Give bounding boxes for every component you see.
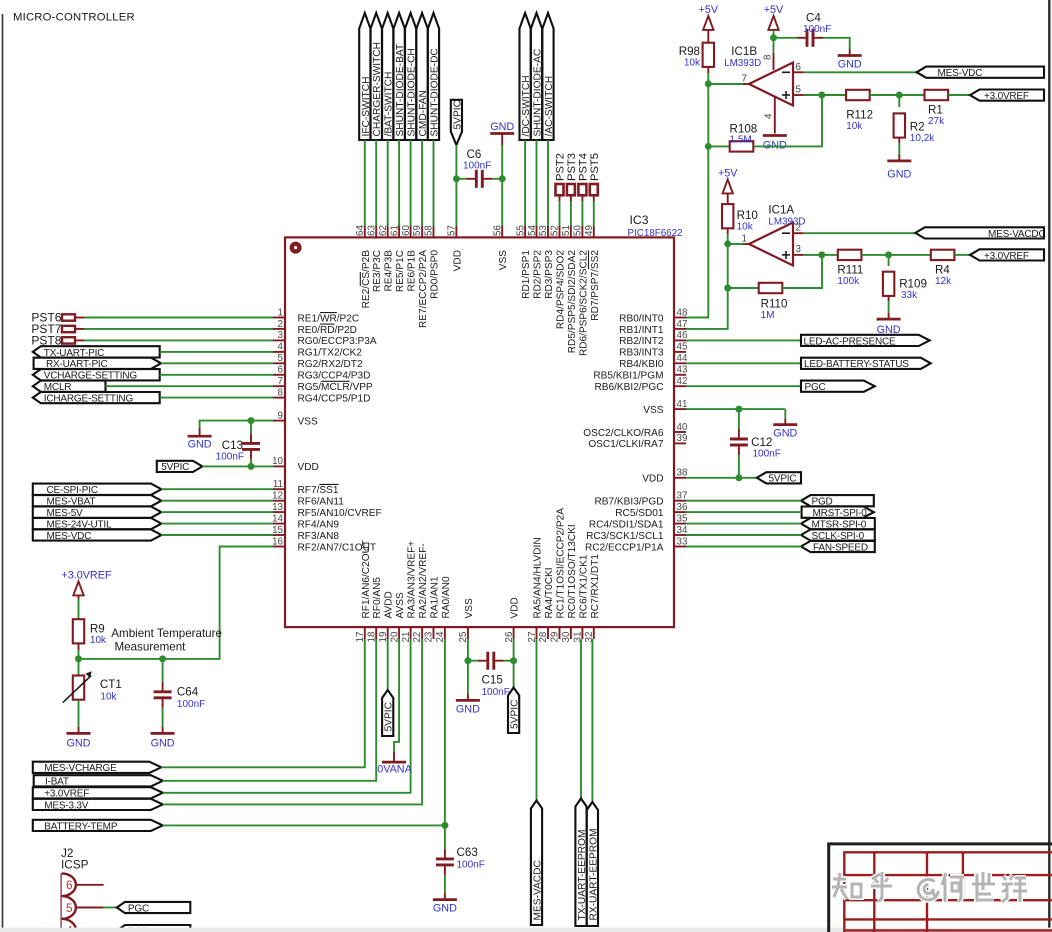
svg-text:RB5/KBI1/PGM: RB5/KBI1/PGM xyxy=(593,371,663,382)
svg-text:47: 47 xyxy=(677,319,688,330)
svg-text:RD5/PSP5/SDI2/SDA2: RD5/PSP5/SDI2/SDA2 xyxy=(567,250,578,354)
svg-text:LM393D: LM393D xyxy=(724,58,761,69)
IC3 pin 32 RC7/RX1/DT1 xyxy=(584,554,601,643)
resistor R2 xyxy=(894,113,936,144)
net flag MRST-SPI-0 xyxy=(802,507,874,520)
svg-text:10k: 10k xyxy=(90,635,107,646)
IC3 pin 26 VDD xyxy=(504,597,521,642)
IC3 pin 17 RF1/AN6/C2OUT xyxy=(355,540,372,643)
svg-text:C4: C4 xyxy=(806,12,821,25)
wire J2 pin4 to PGD xyxy=(104,929,117,931)
junction xyxy=(159,655,166,662)
IC3 pin 12 RF6/AN11 xyxy=(272,491,344,508)
wire pin 20 AVSS to 0VANA xyxy=(394,639,399,752)
svg-text:+5V: +5V xyxy=(718,168,738,180)
svg-text:FAN-SPEED: FAN-SPEED xyxy=(813,542,868,553)
net flag MES-VDC xyxy=(33,529,162,542)
wire pin 27 to MES-VACDC xyxy=(536,639,538,801)
svg-text:BATTERY-TEMP: BATTERY-TEMP xyxy=(44,821,118,832)
wire pin57 node to C6 xyxy=(456,178,466,180)
capacitor C15 xyxy=(478,652,504,670)
svg-text:RC6/TX1/CK1: RC6/TX1/CK1 xyxy=(578,554,589,618)
wire IC1A output xyxy=(728,243,743,245)
svg-text:RC3/SCK1/SCL1: RC3/SCK1/SCL1 xyxy=(586,531,664,542)
ground below C63 xyxy=(433,893,457,900)
wire pin 32 to RX-UART-EEPROM xyxy=(591,639,593,802)
svg-text:RD4/PSP4/SDO2: RD4/PSP4/SDO2 xyxy=(556,250,567,329)
junction xyxy=(724,285,731,292)
svg-text:RB1/INT1: RB1/INT1 xyxy=(619,325,664,336)
wire MES-5V to pin 13 xyxy=(161,511,273,513)
svg-text:R110: R110 xyxy=(761,298,788,311)
junction xyxy=(510,657,517,664)
wire node to R110 xyxy=(728,287,759,289)
overline SS2 on pin 49 label xyxy=(588,251,590,270)
wire MCLR to pin 7 xyxy=(106,385,274,387)
svg-text:RF5/AN10/CVREF: RF5/AN10/CVREF xyxy=(298,508,382,519)
svg-text:11: 11 xyxy=(273,479,283,490)
wire I-BAT to pin 18 xyxy=(163,639,376,781)
svg-text:5VPIC: 5VPIC xyxy=(161,462,189,473)
wire +5V to IC1B pin 8 xyxy=(773,30,775,53)
svg-text:RA0/AN0: RA0/AN0 xyxy=(441,576,452,618)
wire J2 pin5 to PGC xyxy=(104,907,117,909)
ground at pin 41 xyxy=(773,418,797,424)
svg-text:GND: GND xyxy=(838,59,862,71)
net flag MCLR xyxy=(33,381,106,394)
svg-text:30: 30 xyxy=(561,631,572,642)
net flag /DC-SWITCH xyxy=(520,13,533,140)
net flag PGC xyxy=(801,381,875,394)
op-amp ic body: IC3 PIC18F6622 outline xyxy=(285,237,674,627)
net flag RX-UART-EEPROM xyxy=(587,802,600,926)
wire C13 to pin10 node xyxy=(250,459,252,466)
net flag 5VPIC supply flag xyxy=(157,461,203,473)
svg-text:MES-VACDC: MES-VACDC xyxy=(988,229,1045,240)
svg-text:MES-VCHARGE: MES-VCHARGE xyxy=(44,763,117,774)
wire pin 41 VSS to ground xyxy=(686,408,785,410)
overline CS on pin 64 label xyxy=(359,272,361,286)
IC3 pin 2 RE0/RD/P2D xyxy=(273,319,357,336)
wire pin 35 to MTSR-SPI-0 xyxy=(686,523,801,525)
svg-text:6: 6 xyxy=(278,365,284,376)
junction xyxy=(735,406,742,413)
IC3 pin 60 RE6/P1B xyxy=(401,225,418,292)
svg-text:10k: 10k xyxy=(737,222,754,233)
svg-text:1.5M: 1.5M xyxy=(730,134,752,145)
connector J2 ICSP xyxy=(62,873,104,932)
junction xyxy=(705,143,712,150)
svg-text:RC2/ECCP1/P1A: RC2/ECCP1/P1A xyxy=(585,542,664,553)
svg-text:RF6/AN11: RF6/AN11 xyxy=(298,497,345,508)
IC3 pin 64 RE2/CS/P2B xyxy=(355,225,372,309)
svg-text:RG3/CCP4/P3D: RG3/CCP4/P3D xyxy=(298,371,371,382)
svg-text:5VPIC: 5VPIC xyxy=(510,700,521,729)
title block outer frame xyxy=(829,844,1052,932)
resistor R98 xyxy=(679,43,714,69)
IC3 pin 29 RC1/T1OSI/ECCP2/P2A xyxy=(550,508,567,643)
wire R2 to ground xyxy=(898,143,900,155)
svg-text:RA4/T0CKI: RA4/T0CKI xyxy=(544,567,555,618)
wire C63 to ground xyxy=(444,875,446,893)
svg-text:PST2: PST2 xyxy=(555,153,567,181)
wire R110 to +in node xyxy=(782,255,822,288)
capacitor C12 xyxy=(730,429,748,455)
wire MES-3.3V to pin 22 xyxy=(163,639,422,804)
IC3 pin 40 OSC2/CLKO/RA6 xyxy=(583,422,688,439)
svg-text:RC0/T1OSO/T13CKI: RC0/T1OSO/T13CKI xyxy=(567,524,578,618)
svg-text:28: 28 xyxy=(538,631,549,642)
svg-text:GND: GND xyxy=(456,704,480,716)
svg-text:10k: 10k xyxy=(846,121,863,132)
svg-text:GND: GND xyxy=(67,738,91,750)
net flag TX-UART-EEPROM xyxy=(575,799,588,927)
wire R108 to +in node xyxy=(753,95,822,146)
svg-text:7: 7 xyxy=(742,74,747,85)
svg-text:10k: 10k xyxy=(684,58,701,69)
wire C15 to pin26 xyxy=(504,660,514,662)
wire pin 36 to MRST-SPI-0 xyxy=(686,511,802,513)
svg-text:7: 7 xyxy=(278,376,283,387)
net flag FAN-SPEED xyxy=(801,541,875,554)
svg-text:GND: GND xyxy=(887,169,911,181)
wire pin 26 VDD down xyxy=(513,639,515,661)
svg-text:RD7/PSP7/SS2: RD7/PSP7/SS2 xyxy=(590,250,601,321)
net flag VCHARGE-SETTING xyxy=(33,369,160,382)
svg-text:58: 58 xyxy=(424,225,435,236)
0VANA supply xyxy=(393,752,395,762)
svg-text:C6: C6 xyxy=(467,148,482,161)
svg-text:8: 8 xyxy=(762,54,773,60)
overline RD on pin 2 label xyxy=(320,323,335,325)
svg-text:33k: 33k xyxy=(901,290,918,301)
svg-text:AVSS: AVSS xyxy=(395,592,406,618)
resistor R110 xyxy=(759,283,788,321)
wire MES-24V-UTIL to pin 14 xyxy=(161,523,273,525)
junction xyxy=(735,474,742,481)
svg-text:63: 63 xyxy=(366,225,377,236)
wire CHARGER-SWITCH to pin 63 xyxy=(375,140,377,226)
wire TX-UART-PIC to pin 4 xyxy=(160,351,273,353)
svg-text:R2: R2 xyxy=(910,121,925,134)
svg-text:4: 4 xyxy=(278,342,284,353)
svg-text:PGC: PGC xyxy=(805,382,826,393)
svg-text:+5V: +5V xyxy=(764,4,784,16)
IC3 pin 41 VSS xyxy=(643,399,687,416)
svg-text:62: 62 xyxy=(378,225,389,236)
title block table xyxy=(844,852,1052,932)
IC3 pin 62 RE4/P3B xyxy=(378,225,395,291)
svg-text:39: 39 xyxy=(677,433,688,444)
svg-text:12k: 12k xyxy=(935,276,952,287)
net flag MES-VBAT xyxy=(33,495,162,508)
net flag MES-VACDC xyxy=(915,227,1045,240)
watermark overlay xyxy=(832,872,1027,902)
test pad PST5 xyxy=(589,153,601,201)
IC3 pin 7 RG5/MCLR/VPP xyxy=(273,376,373,393)
wire pin 19 AVDD to 5VPIC xyxy=(387,639,389,690)
IC3 pin 25 VSS xyxy=(458,598,475,642)
svg-text:55: 55 xyxy=(515,225,526,236)
svg-text:9: 9 xyxy=(278,410,283,421)
net flag +3.0VREF flag xyxy=(970,249,1044,261)
wire SHUNT-DIODE-AC to pin 54 xyxy=(536,140,538,226)
wire IFC-SWITCH to pin 64 xyxy=(364,140,366,226)
svg-text:RF1/AN6/C2OUT: RF1/AN6/C2OUT xyxy=(361,540,372,619)
net flag PGD at J2 xyxy=(117,925,190,932)
wire CE-SPI-PIC to pin 11 xyxy=(161,488,273,490)
svg-text:RD1/PSP1: RD1/PSP1 xyxy=(521,250,532,299)
IC3 pin 63 RE3/P3C xyxy=(366,225,383,293)
IC3 pin 9 VSS xyxy=(273,410,318,427)
svg-text:GND: GND xyxy=(433,903,457,915)
resistor R1 xyxy=(925,90,949,127)
IC3 pin 22 RA2/AN2/VREF- xyxy=(412,543,429,642)
IC3 pin 18 RF0/AN5 xyxy=(366,577,383,643)
svg-text:RF0/AN5: RF0/AN5 xyxy=(372,577,383,619)
IC3 pin 14 RF4/AN9 xyxy=(272,513,339,530)
wire pin 9 VSS to ground xyxy=(200,421,273,428)
thermistor CT1 xyxy=(63,659,122,703)
svg-text:40: 40 xyxy=(677,422,688,433)
IC3 pin 15 RF3/AN8 xyxy=(272,525,339,542)
IC3 pin 1 RE1/WR/P2C xyxy=(273,307,359,324)
wire pin26 node to 5VPIC xyxy=(513,661,515,688)
svg-text:Measurement: Measurement xyxy=(115,640,187,653)
wire PST4 to pin 50 xyxy=(581,201,583,226)
net flag SHUNT-DIODE-AC xyxy=(531,13,544,140)
IC3 pin 57 VDD xyxy=(447,225,464,271)
svg-text:GND: GND xyxy=(188,439,212,451)
IC3 pin 55 RD1/PSP1 xyxy=(515,225,532,299)
resistor R9 xyxy=(73,619,107,646)
wire pin 44 to LED-BATTERY-STATUS xyxy=(686,362,801,364)
svg-text:C64: C64 xyxy=(177,686,199,699)
junction xyxy=(724,240,731,247)
svg-text:RG5/MCLR/VPP: RG5/MCLR/VPP xyxy=(298,382,373,393)
IC3 pin 47 RB1/INT1 xyxy=(619,319,687,336)
svg-text:0VANA: 0VANA xyxy=(377,764,412,776)
wire R98 to node xyxy=(707,73,709,84)
wire +3.0VREF to pin 21 xyxy=(163,639,411,793)
IC1B pin 8 stub xyxy=(773,53,775,70)
wire IC1B +in to R112 xyxy=(804,94,846,96)
wire IC1A -in to MES-VACDC xyxy=(804,232,916,234)
svg-text:49: 49 xyxy=(584,225,595,236)
op-amp IC1A LM393D xyxy=(743,223,804,266)
wire /BAT-SWITCH to pin 62 xyxy=(387,140,389,226)
svg-text:5VPIC: 5VPIC xyxy=(452,100,463,129)
test pad PST3 xyxy=(566,153,578,201)
test pad PST6 xyxy=(31,311,84,325)
svg-text:RE7/ECCP2/P2A: RE7/ECCP2/P2A xyxy=(418,250,429,328)
svg-text:LED-AC-PRESENCE: LED-AC-PRESENCE xyxy=(804,336,897,347)
wire /DC-SWITCH to pin 55 xyxy=(524,140,526,226)
IC3 pin 33 RC2/ECCP1/P1A xyxy=(585,536,688,553)
IC3 pin 3 RG0/ECCP3:P3A xyxy=(273,330,377,347)
IC3 pin 45 RB3/INT3 xyxy=(619,342,688,359)
net flag 5VPIC supply flag xyxy=(757,472,801,485)
ground below C64 xyxy=(151,727,175,733)
wire IC1B output xyxy=(708,83,743,85)
net flag BATTERY-TEMP xyxy=(33,820,163,833)
wire PST2 to pin 52 xyxy=(559,201,561,226)
wire R10 to node xyxy=(727,234,729,244)
net flag IFC-SWITCH xyxy=(359,13,372,140)
ground at pin 9 xyxy=(188,428,212,436)
svg-text:VDD: VDD xyxy=(298,462,319,473)
wire C4 to ground xyxy=(823,38,850,49)
svg-text:VDD: VDD xyxy=(510,597,521,618)
test pad PST2 xyxy=(555,153,567,201)
wire BATTERY-TEMP to node xyxy=(163,824,445,826)
IC3 pin 46 RB2/INT2 xyxy=(619,330,688,347)
svg-text:41: 41 xyxy=(677,399,688,410)
svg-text:R111: R111 xyxy=(837,264,863,277)
wire pin 48 to IC1B output node xyxy=(686,84,708,318)
svg-text:CT1: CT1 xyxy=(100,678,122,691)
wire +5V node to C4 xyxy=(774,37,798,39)
IC3 pin 16 RF2/AN7/C1OUT xyxy=(272,536,376,553)
svg-text:3: 3 xyxy=(278,330,284,341)
svg-text:R1: R1 xyxy=(928,104,943,117)
sheet frame left border xyxy=(2,14,4,932)
IC3 pin 11 RF7/SS1 xyxy=(273,479,339,496)
IC3 pin 50 RD6/PSP6/SCK2/SCL2 xyxy=(573,225,590,356)
svg-text:MES-VACDC: MES-VACDC xyxy=(533,860,544,920)
wire MES-VDC to pin 15 xyxy=(161,534,273,536)
IC3 origin marker xyxy=(292,244,300,252)
IC3 pin 35 RC4/SDI1/SDA1 xyxy=(589,513,688,530)
wire PST6 to pin 1 xyxy=(84,317,273,319)
capacitor C64 xyxy=(154,682,172,708)
junction xyxy=(453,175,460,182)
ground below pin 25 xyxy=(456,694,480,700)
wire SHUNT-DIODE-DC to pin 58 xyxy=(433,140,435,226)
net flag SHUNT-DIODE-DC xyxy=(428,13,441,140)
+5V supply at R98 xyxy=(703,16,713,43)
svg-text:5VPIC: 5VPIC xyxy=(769,474,797,485)
IC3 pin 27 RA5/AN4/HLVDIN xyxy=(527,537,544,642)
IC3 pin 44 RB4/KBI0 xyxy=(619,353,688,370)
wire node to C64 xyxy=(162,659,164,682)
svg-text:+3.0VREF: +3.0VREF xyxy=(984,251,1029,262)
svg-text:RG4/CCP5/P1D: RG4/CCP5/P1D xyxy=(298,393,371,404)
wire +3.0VREF to R9 xyxy=(78,599,80,620)
wire pin41 node to C12 xyxy=(738,409,740,429)
IC3 pin 59 RE7/ECCP2/P2A xyxy=(412,225,429,328)
svg-text:PST3: PST3 xyxy=(566,153,578,181)
IC3 pin 23 RA1/AN1 xyxy=(424,576,441,642)
svg-text:MES-VDC: MES-VDC xyxy=(47,531,92,542)
wire R112 to R1 xyxy=(870,94,925,96)
test pad PST8 xyxy=(31,334,84,348)
svg-text:4: 4 xyxy=(764,113,775,119)
wire pin 33 to FAN-SPEED xyxy=(686,546,801,548)
junction xyxy=(248,417,255,424)
svg-text:100nF: 100nF xyxy=(216,451,244,462)
svg-text:LED-BATTERY-STATUS: LED-BATTERY-STATUS xyxy=(804,359,909,370)
wire node to R108 xyxy=(708,145,729,147)
wire PST7 to pin 2 xyxy=(84,328,273,330)
junction xyxy=(885,251,892,258)
svg-text:RG2/RX2/DT2: RG2/RX2/DT2 xyxy=(298,359,363,370)
svg-text:10,2k: 10,2k xyxy=(910,133,935,144)
resistor R111 xyxy=(837,250,863,287)
wire ICHARGE-SETTING to pin 8 xyxy=(160,397,273,399)
wire pin 16 to temperature node xyxy=(79,547,274,659)
svg-text:R112: R112 xyxy=(846,109,873,122)
wire down to ground xyxy=(784,409,786,418)
svg-text:10: 10 xyxy=(272,456,283,467)
svg-text:RE3/P3C: RE3/P3C xyxy=(372,250,383,292)
wire pin 25 VSS down xyxy=(467,639,469,661)
svg-text:53: 53 xyxy=(538,225,549,236)
svg-text:RB7/KBI3/PGD: RB7/KBI3/PGD xyxy=(594,497,663,508)
svg-text:37: 37 xyxy=(677,491,688,502)
wire pin 38 VDD to 5VPIC xyxy=(686,477,757,479)
net flag SHUNT-DIODE-BAT xyxy=(394,13,407,140)
wire pin 24 to C63 xyxy=(444,639,446,849)
IC3 pin 37 RB7/KBI3/PGD xyxy=(594,491,687,508)
svg-text:C12: C12 xyxy=(751,436,772,449)
svg-text:RB2/INT2: RB2/INT2 xyxy=(619,336,664,347)
test pad PST7 xyxy=(31,322,84,336)
wire 5VPIC to pin 10 VDD xyxy=(202,465,273,467)
svg-text:RC5/SD01: RC5/SD01 xyxy=(615,508,664,519)
IC3 pin 56 VSS xyxy=(492,225,509,271)
svg-text:RF4/AN9: RF4/AN9 xyxy=(298,519,340,530)
wire SHUNT-DIODE-CH to pin 60 xyxy=(410,140,412,226)
junction xyxy=(705,80,712,87)
svg-text:RA2/AN2/VREF-: RA2/AN2/VREF- xyxy=(418,543,429,618)
wire C6 to pin56 node xyxy=(492,178,502,180)
wire C12 to pin38 node xyxy=(738,455,740,478)
net flag TX-UART-PIC xyxy=(33,346,160,359)
svg-text:RX-UART-EEPROM: RX-UART-EEPROM xyxy=(588,828,599,920)
svg-text:Ambient Temperature: Ambient Temperature xyxy=(111,627,222,640)
junction xyxy=(464,657,471,664)
wire pin 31 to TX-UART-EEPROM xyxy=(580,639,582,799)
svg-text:C63: C63 xyxy=(457,846,478,859)
IC3 pin 31 RC6/TX1/CK1 xyxy=(573,554,590,642)
svg-text:51: 51 xyxy=(561,225,572,236)
svg-text:RE2/CS/P2B: RE2/CS/P2B xyxy=(361,250,372,309)
ground at R2 xyxy=(887,155,911,161)
wire 5VPIC to pin 57 VDD xyxy=(455,145,457,226)
svg-text:+5V: +5V xyxy=(699,4,719,16)
svg-text:100nF: 100nF xyxy=(463,160,491,171)
svg-text:RF7/SS1: RF7/SS1 xyxy=(298,485,339,496)
wire pin25 to C15 xyxy=(468,660,478,662)
svg-text:/AC-SWITCH: /AC-SWITCH xyxy=(544,76,555,137)
svg-text:+3.0VREF: +3.0VREF xyxy=(984,91,1029,102)
net flag MES-3.3V xyxy=(33,799,163,812)
net flag 5VPIC supply flag xyxy=(508,688,521,734)
svg-text:100nF: 100nF xyxy=(457,859,485,870)
svg-text:15: 15 xyxy=(272,525,283,536)
+5V supply at IC1B pin8 xyxy=(768,16,778,30)
svg-text:43: 43 xyxy=(677,365,688,376)
svg-text:RF3/AN8: RF3/AN8 xyxy=(298,531,340,542)
overline SS1 on pin 11 label xyxy=(319,483,338,485)
wire IC1A +in to R111 xyxy=(804,254,837,256)
svg-text:6: 6 xyxy=(66,878,73,892)
IC3 pin 43 RB5/KBI1/PGM xyxy=(593,365,688,382)
IC3 pin 24 RA0/AN0 xyxy=(435,576,452,642)
svg-text:RD2/PSP2: RD2/PSP2 xyxy=(533,250,544,299)
IC3 pin 52 RD4/PSP4/SDO2 xyxy=(550,225,567,329)
